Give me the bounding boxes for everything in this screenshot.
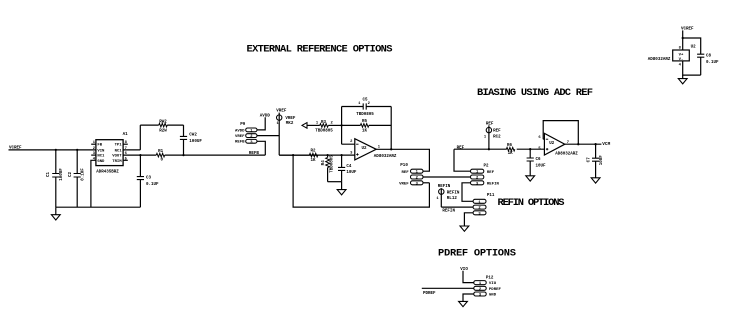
svg-text:AD8032ARZ: AD8032ARZ	[648, 58, 671, 62]
svg-text:R2: R2	[310, 149, 316, 153]
svg-text:RC2: RC2	[493, 135, 501, 139]
svg-text:NC1: NC1	[115, 149, 123, 153]
wire P2 pin1 to REF net	[454, 149, 471, 171]
wire VREF to U2 buffer input	[279, 154, 355, 156]
reference U A1 ADR435BRZ body	[96, 140, 123, 166]
net VCREF supply	[681, 28, 694, 32]
wire feedback left vertical to inverting input	[342, 107, 355, 145]
svg-text:PDREF: PDREF	[489, 288, 502, 292]
svg-text:P2: P2	[484, 165, 490, 169]
ground P11	[460, 226, 469, 231]
svg-text:P11: P11	[487, 194, 495, 198]
junction C4	[340, 154, 342, 156]
svg-text:100UF: 100UF	[60, 168, 64, 181]
refdes A1	[123, 133, 129, 137]
A1 pin names right	[112, 144, 122, 164]
value ADR435BRZ	[96, 171, 119, 175]
testpoint VREF MK2 with wire down	[277, 113, 296, 156]
capacitor C5 feedback	[342, 98, 392, 117]
capacitor C8	[697, 54, 719, 75]
svg-text:VCM: VCM	[602, 142, 610, 147]
resistor RW2	[140, 120, 183, 133]
ground P12	[459, 301, 468, 306]
A1 pin 3 stub	[91, 152, 96, 156]
svg-text:C6: C6	[536, 158, 542, 162]
svg-text:0.1UF: 0.1UF	[82, 168, 86, 181]
wire tap to C8	[683, 38, 701, 54]
svg-text:R4: R4	[322, 160, 326, 166]
ground left rail	[51, 207, 60, 220]
ground C6	[526, 176, 535, 181]
svg-text:PDREF: PDREF	[423, 292, 436, 296]
capacitor C2	[69, 150, 86, 207]
svg-text:C7: C7	[587, 157, 591, 163]
refdes U2 supply	[691, 45, 697, 49]
wire P12 pin2 PDREF	[422, 287, 474, 289]
svg-text:MK2: MK2	[286, 122, 294, 126]
capacitor C4	[338, 155, 357, 182]
net VCREF	[9, 147, 22, 151]
net AVDD	[260, 114, 271, 118]
svg-text:VIN: VIN	[97, 149, 105, 153]
connector P10	[400, 164, 423, 186]
wire P9 pin3 to VOUT net	[257, 141, 265, 155]
junction at C2	[76, 149, 78, 151]
svg-text:REFIN: REFIN	[447, 191, 460, 195]
svg-text:GND: GND	[489, 294, 497, 298]
wire pin7 to loop vertical	[123, 125, 140, 150]
P2 pin labels	[487, 171, 500, 187]
svg-text:R5: R5	[362, 120, 368, 124]
wire ground rail left	[56, 206, 141, 208]
svg-text:BIASING USING ADC REF: BIASING USING ADC REF	[477, 87, 593, 99]
svg-text:1K: 1K	[362, 129, 368, 133]
svg-text:R2W: R2W	[159, 129, 167, 133]
A1 pin 5 stub	[123, 157, 128, 161]
wire REF to U2b noninverting input	[454, 148, 544, 150]
ground R4 C4	[337, 182, 346, 195]
wire A1 GND pin4 to rail	[91, 160, 96, 207]
connector P2	[471, 165, 490, 187]
junction feedback output	[390, 148, 392, 150]
testpoint REFIN RL12	[436, 188, 460, 207]
wire REFIN testpoint to P11 pin2	[441, 206, 473, 208]
capacitor C6	[527, 149, 546, 176]
svg-text:REF: REF	[401, 171, 409, 175]
wire V- to ground and C8 return	[683, 61, 701, 75]
svg-text:AD8032ARZ: AD8032ARZ	[374, 155, 397, 159]
testpoint REF RC2	[484, 125, 501, 149]
svg-text:TRIM: TRIM	[112, 160, 122, 164]
junction drop to lower rail	[292, 154, 294, 156]
svg-text:GND: GND	[97, 160, 105, 164]
value AD8032ARZ supply	[648, 58, 671, 62]
svg-text:10UF: 10UF	[600, 155, 604, 166]
title BIASING USING ADC REF	[477, 87, 593, 99]
svg-text:R6: R6	[507, 144, 513, 148]
svg-text:VREF: VREF	[285, 117, 296, 121]
svg-text:A1: A1	[123, 133, 129, 137]
svg-text:AVDD: AVDD	[260, 114, 271, 118]
svg-text:VREF: VREF	[276, 109, 287, 113]
wire P12 pin3 to ground	[463, 294, 474, 301]
net REFIN below	[442, 210, 455, 214]
wire P9 pin1 to AVDD	[257, 117, 265, 130]
svg-text:U2: U2	[691, 45, 697, 49]
resistor R6	[506, 144, 515, 156]
resistor R5	[342, 120, 392, 133]
A1 pin 8 stub	[123, 141, 128, 145]
net VREF above testpoint	[276, 109, 287, 113]
svg-text:P10: P10	[400, 164, 408, 168]
svg-text:PDREF OPTIONS: PDREF OPTIONS	[438, 248, 516, 260]
svg-text:RW2: RW2	[159, 120, 167, 124]
junction REF testpoint	[488, 148, 490, 150]
op-amp U2 AD8032ARZ buffer	[350, 139, 397, 160]
junction R3 R5 node	[340, 124, 342, 126]
svg-text:100UF: 100UF	[189, 140, 202, 144]
wire P11 pin3 to ground	[464, 213, 473, 226]
net REF label	[457, 146, 465, 150]
resistor R3	[307, 121, 342, 134]
wire lower rail to P10 pin3	[293, 155, 429, 207]
wire VCREF input rail	[9, 149, 96, 151]
svg-text:10UF: 10UF	[346, 171, 357, 175]
junction C8 tap	[682, 37, 684, 39]
svg-text:REFIN: REFIN	[442, 210, 455, 214]
svg-text:VREF: VREF	[399, 182, 409, 186]
junction CW2 to VOUT wire	[182, 154, 184, 156]
svg-text:REFB: REFB	[235, 141, 245, 145]
junction R4	[326, 154, 328, 156]
svg-text:U2: U2	[549, 142, 555, 146]
svg-text:REF: REF	[487, 171, 495, 175]
svg-text:REFB: REFB	[249, 152, 260, 156]
ground supply	[678, 75, 687, 84]
resistor R1	[156, 150, 164, 163]
title REFIN OPTIONS	[498, 197, 565, 209]
wire VCREF to U2 V+ pin8	[682, 30, 684, 50]
A1 pin 7 number	[125, 147, 128, 151]
wire P12 pin1 to VIO	[463, 271, 474, 283]
svg-text:VREF: VREF	[235, 135, 245, 139]
net PDREF	[423, 292, 436, 296]
svg-text:VOUT: VOUT	[112, 155, 122, 159]
svg-text:REFIN OPTIONS: REFIN OPTIONS	[498, 197, 565, 209]
svg-text:NC1: NC1	[97, 155, 105, 159]
svg-text:EXTERNAL REFERENCE OPTIONS: EXTERNAL REFERENCE OPTIONS	[247, 44, 393, 56]
svg-text:REFIN: REFIN	[438, 185, 451, 189]
junction U2b feedback output	[577, 143, 579, 145]
svg-text:P12: P12	[486, 277, 494, 281]
wire P2 pin3 to P11 pin1	[462, 183, 473, 202]
wire A1 VOUT net	[123, 154, 265, 156]
svg-text:CW2: CW2	[189, 133, 197, 137]
svg-text:AD8032ARZ: AD8032ARZ	[555, 153, 578, 157]
svg-text:TBD0805: TBD0805	[331, 155, 335, 173]
svg-text:R3: R3	[321, 121, 327, 125]
P10 pin labels	[399, 171, 409, 187]
svg-text:REF: REF	[493, 130, 501, 134]
P12 pin labels	[489, 282, 502, 297]
capacitor CW2	[180, 125, 202, 155]
svg-text:AVDD: AVDD	[235, 129, 245, 133]
junction at C1	[55, 149, 57, 151]
wire P9 pin2 to VREF testpoint line	[257, 135, 279, 137]
svg-text:VIO: VIO	[460, 268, 468, 272]
A1 pin 1 stub	[91, 141, 96, 145]
wire P10 pin2 to P2 pin2	[423, 176, 471, 178]
wire feedback right vertical	[390, 107, 392, 150]
svg-text:10UF: 10UF	[536, 165, 547, 169]
svg-text:0.1UF: 0.1UF	[706, 61, 719, 65]
svg-text:ADR435BRZ: ADR435BRZ	[96, 171, 119, 175]
svg-text:RL12: RL12	[447, 197, 458, 201]
svg-text:U2: U2	[362, 147, 368, 151]
svg-text:FB: FB	[97, 144, 102, 148]
wire P10 pin3 stub	[423, 182, 429, 184]
net VIO	[460, 268, 468, 272]
svg-text:C1: C1	[47, 172, 51, 178]
net label REFB on VOUT wire	[249, 152, 260, 156]
svg-text:VIO: VIO	[489, 282, 497, 286]
op-amp U2b AD8032ARZ	[538, 133, 578, 156]
P9 pin labels	[235, 129, 245, 144]
svg-text:1K: 1K	[310, 159, 316, 163]
supply box U2 power pins	[673, 50, 690, 62]
wire U2 output to P10 pin1	[376, 149, 429, 171]
svg-text:P9: P9	[240, 123, 246, 127]
svg-text:1K: 1K	[508, 152, 514, 156]
svg-text:V+: V+	[679, 53, 684, 57]
svg-text:C3: C3	[146, 176, 152, 180]
A1 pin names left	[97, 144, 105, 164]
capacitor C7	[587, 144, 603, 178]
resistor R4 vertical	[322, 155, 335, 182]
resistor R2	[279, 149, 318, 163]
svg-text:TP1: TP1	[115, 144, 123, 148]
wire R4 C4 bottoms	[328, 181, 342, 183]
title EXTERNAL REFERENCE OPTIONS	[247, 44, 393, 56]
svg-text:C4: C4	[346, 165, 352, 169]
capacitor C3	[137, 155, 159, 207]
net VCM	[602, 142, 610, 147]
svg-text:0.1UF: 0.1UF	[146, 183, 159, 187]
A1 pin 4 number	[93, 157, 96, 161]
wire U2b output to VCM	[565, 143, 602, 145]
svg-text:REFIN: REFIN	[487, 182, 500, 186]
wire U2b feedback loop	[543, 121, 578, 145]
net REFIN above testpoint	[438, 185, 451, 189]
svg-text:REF: REF	[486, 122, 494, 126]
A1 pin 6 number	[125, 152, 128, 156]
svg-text:C2: C2	[69, 172, 73, 178]
A1 pin 2 number	[93, 147, 96, 151]
net REF above testpoint	[486, 122, 494, 126]
connector P9	[240, 123, 257, 145]
capacitor C1	[47, 150, 64, 207]
svg-text:R1: R1	[158, 150, 164, 154]
svg-text:C8: C8	[706, 54, 712, 58]
connector P11	[473, 194, 495, 216]
title PDREF OPTIONS	[438, 248, 516, 260]
junction C6	[529, 148, 531, 150]
off-page arrow R3 input	[302, 123, 307, 129]
ground C7	[591, 178, 600, 183]
connector P12	[474, 277, 494, 298]
junction C7	[594, 143, 596, 145]
svg-text:TBD0805: TBD0805	[356, 113, 374, 117]
svg-text:TBD0805: TBD0805	[315, 130, 333, 134]
pin 4 label	[679, 63, 682, 67]
junction C3	[139, 154, 141, 156]
pin 8 label	[679, 46, 682, 50]
